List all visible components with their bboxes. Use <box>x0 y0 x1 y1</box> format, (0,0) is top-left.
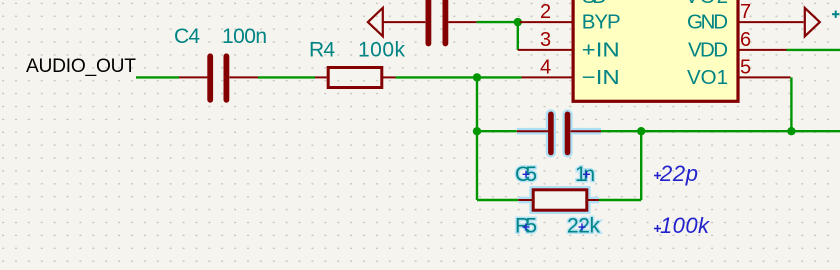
wire top cap to pin2 junction <box>477 21 518 23</box>
wire bottom left to R5 <box>477 199 518 201</box>
field anchor cross 22k <box>579 224 586 231</box>
field anchor cross 1n <box>583 171 590 178</box>
C5 reference field <box>515 163 537 186</box>
capacitor C4 <box>179 56 258 100</box>
teal plus (cut text, top right) <box>832 11 840 18</box>
pin 6 VDD <box>688 29 787 62</box>
pin 5 VO1 <box>687 57 791 89</box>
wire junction to C5 <box>477 130 517 132</box>
wire C5 to right vertical <box>601 130 641 132</box>
wire vertical right feedback branch <box>640 131 642 200</box>
junction dot at R4/pin4 node <box>473 73 481 81</box>
svg-text:2: 2 <box>540 1 551 23</box>
svg-text:22k: 22k <box>567 215 601 238</box>
svg-text:+IN: +IN <box>582 38 620 61</box>
svg-text:−IN: −IN <box>582 66 620 89</box>
C5 value field 1n <box>575 163 595 186</box>
pin 2 BYP <box>520 1 621 34</box>
svg-text:BYP: BYP <box>582 11 621 34</box>
junction dot C5 left node <box>473 127 481 135</box>
anchor cross for 100k <box>654 225 661 232</box>
svg-text:VO1: VO1 <box>687 66 728 89</box>
field anchor cross C5 <box>523 171 530 178</box>
pin 3 +IN <box>518 29 620 62</box>
anchor cross for 22p <box>654 172 661 179</box>
label AUDIO_OUT <box>26 56 136 77</box>
svg-text:3: 3 <box>540 29 551 51</box>
capacitor C5 (selected, halo) <box>517 114 601 152</box>
svg-text:5: 5 <box>740 57 751 79</box>
wire R4 to junction <box>396 76 478 78</box>
wire junction down to pin 3 <box>517 22 519 50</box>
resistor R5 (selected, halo) <box>518 190 599 210</box>
wire C4 to R4 <box>258 76 315 78</box>
svg-text:100k: 100k <box>660 213 710 238</box>
R5 reference field <box>515 215 537 238</box>
svg-text:AUDIO_OUT: AUDIO_OUT <box>26 56 136 77</box>
wire arrow to top capacitor <box>383 21 426 23</box>
capacitor C? (top, cut off) <box>428 0 476 44</box>
svg-text:100k: 100k <box>358 39 406 62</box>
wire junction to pin 4 <box>477 76 522 78</box>
svg-text:C4: C4 <box>174 25 200 48</box>
R5 value field 22k <box>567 215 601 238</box>
op-amp U1 body <box>573 0 738 101</box>
wire pin 6 to right edge <box>787 49 840 51</box>
wire from AUDIO_OUT to C4 <box>136 76 179 78</box>
svg-text:GND: GND <box>687 11 728 34</box>
svg-text:6: 6 <box>740 29 751 51</box>
input arrow (open triangle, top-left) <box>368 8 383 36</box>
feedback wire to right edge <box>641 130 840 132</box>
junction dot at pin2 node <box>514 18 522 26</box>
wire pin 5 down to feedback net <box>790 77 792 131</box>
svg-text:VO2: VO2 <box>685 0 728 8</box>
svg-text:4: 4 <box>540 57 551 79</box>
junction dot pin5/feedback <box>787 127 795 135</box>
pin 4 -IN <box>522 57 620 89</box>
svg-text:7: 7 <box>740 1 751 23</box>
svg-text:R4: R4 <box>309 39 335 62</box>
svg-text:22p: 22p <box>659 161 698 186</box>
svg-text:100n: 100n <box>222 25 267 48</box>
pin 7 GND <box>687 1 804 34</box>
svg-text:VDD: VDD <box>688 38 728 61</box>
output arrow (open triangle, right) <box>805 8 820 36</box>
wire R5 to right vertical <box>599 199 641 201</box>
field anchor cross R5 <box>523 224 530 231</box>
resistor R4 <box>315 68 396 88</box>
wire vertical left feedback branch <box>476 77 478 200</box>
svg-text:SD: SD <box>582 0 607 8</box>
junction dot C5 right node <box>637 127 645 135</box>
